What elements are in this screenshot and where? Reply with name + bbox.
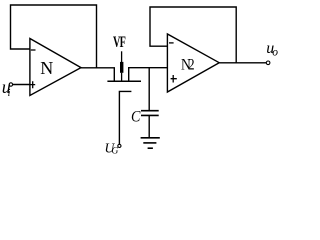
node uo terminal circle (266, 61, 270, 65)
label C (131, 109, 141, 126)
capacitor C top lead (148, 68, 150, 110)
node ui input wire (13, 84, 30, 86)
label N2 (181, 56, 195, 73)
transistor Q1 gate plate and gate lead to UG (119, 91, 131, 144)
op-amp N1 (30, 39, 81, 96)
svg-text:2: 2 (188, 56, 195, 73)
op-amp N1 feedback wire (11, 5, 97, 68)
transistor Q1 substrate thick bar (120, 62, 123, 73)
capacitor C top plate (141, 110, 159, 112)
capacitor C bottom lead (148, 116, 150, 137)
svg-text:G: G (112, 147, 119, 157)
wire: N2 output to uo (219, 62, 266, 64)
svg-text:C: C (131, 109, 141, 126)
capacitor C bottom plate (141, 114, 159, 116)
wire: transistor drain to N2 input rail (129, 68, 168, 82)
svg-text:o: o (272, 47, 278, 59)
transistor Q1 drain lead from VF (121, 51, 123, 62)
op-amp N2 plus pin cross (171, 75, 177, 83)
op-amp N2 feedback wire (150, 7, 236, 63)
transistor Q1 lead below substrate bar (121, 73, 123, 82)
svg-text:N: N (40, 58, 53, 78)
ground (141, 137, 160, 139)
op-amp N2 minus pin dash (169, 42, 174, 44)
svg-text:i: i (8, 88, 11, 99)
op-amp N2 (167, 34, 219, 92)
label VF (113, 33, 126, 51)
svg-text:VF: VF (113, 33, 126, 51)
op-amp N1 plus pin cross (30, 81, 35, 88)
op-amp N1 minus pin dash (31, 49, 36, 51)
transistor Q1 channel bar (107, 80, 141, 82)
wire: N1 output to transistor source (81, 68, 115, 82)
node UG terminal circle (118, 144, 121, 147)
node ui terminal circle (9, 83, 12, 86)
